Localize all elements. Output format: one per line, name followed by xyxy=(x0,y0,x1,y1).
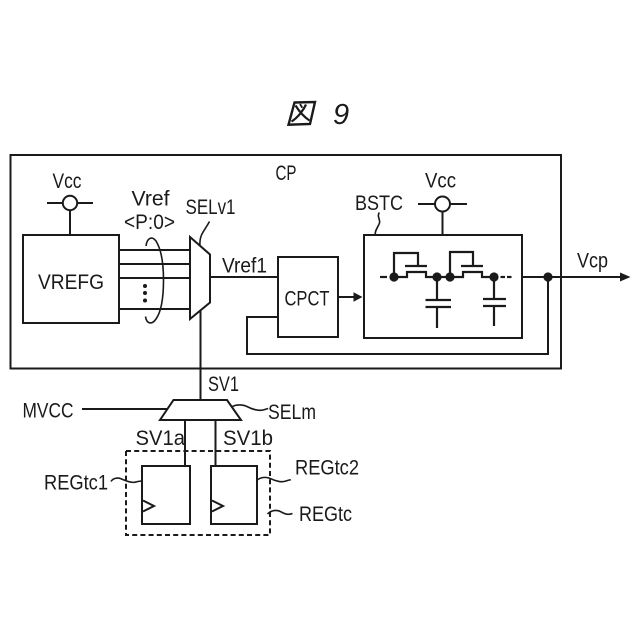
leader squiggle SELv1 xyxy=(200,222,210,246)
block VREFG xyxy=(23,235,119,323)
power Vcc (right) xyxy=(418,197,467,236)
wire SV1b xyxy=(215,420,217,466)
svg-text:Vcp: Vcp xyxy=(577,249,608,272)
svg-text:BSTC: BSTC xyxy=(355,192,403,215)
wire Vref1 xyxy=(210,276,278,278)
register group REGtc dashed box xyxy=(126,451,270,535)
capacitor C2 xyxy=(483,277,506,326)
arrow CPCT to BSTC xyxy=(338,296,355,298)
svg-text:CPCT: CPCT xyxy=(285,288,330,311)
leader squiggle REGtc xyxy=(268,510,293,514)
svg-text:Vref1: Vref1 xyxy=(222,255,267,278)
leader squiggle BSTC xyxy=(375,213,379,236)
svg-text:CP: CP xyxy=(276,162,297,185)
svg-text:MVCC: MVCC xyxy=(23,400,74,423)
feedback wire Vcp to CPCT xyxy=(247,277,548,354)
svg-text:9: 9 xyxy=(333,99,349,131)
svg-text:Vcc: Vcc xyxy=(53,170,82,193)
clock input triangle REGtc2 xyxy=(212,501,223,512)
bus Vref<P:0> wires xyxy=(119,250,190,309)
leader squiggle REGtc2 xyxy=(257,477,291,481)
bus width indicator arc xyxy=(146,238,164,323)
bus vertical ellipsis dots xyxy=(143,284,147,303)
register REGtc2 xyxy=(211,466,257,524)
svg-text:SV1a: SV1a xyxy=(136,427,186,450)
svg-text:<P:0>: <P:0> xyxy=(124,211,175,234)
CP block boundary xyxy=(11,155,562,369)
mux SELv1 xyxy=(190,237,210,319)
chain left stub dash xyxy=(380,276,387,278)
svg-text:SV1: SV1 xyxy=(208,373,239,396)
figure label FIG 9 (kanji ZU drawn as shape) xyxy=(289,102,316,125)
mux SELm xyxy=(160,400,241,420)
wire SV1 xyxy=(200,311,202,401)
svg-text:REGtc2: REGtc2 xyxy=(295,457,359,480)
junction node dots in chain xyxy=(389,272,498,281)
wire between M1 and M2 nodes xyxy=(437,276,450,278)
svg-text:REGtc1: REGtc1 xyxy=(44,472,108,495)
arrowhead Vcp xyxy=(620,273,631,282)
leader squiggle SELm xyxy=(232,405,268,410)
svg-text:SELv1: SELv1 xyxy=(186,196,236,219)
svg-text:SV1b: SV1b xyxy=(223,427,273,450)
svg-text:VREFG: VREFG xyxy=(38,271,104,294)
register REGtc1 xyxy=(142,466,190,524)
svg-text:SELm: SELm xyxy=(268,401,316,424)
wire Vcp output xyxy=(522,276,621,278)
transistor M1 xyxy=(394,253,437,277)
leader squiggle REGtc1 xyxy=(111,478,142,482)
wire SV1a xyxy=(184,420,186,466)
chain continuation dashes xyxy=(501,276,506,278)
clock input triangle REGtc1 xyxy=(143,501,154,512)
svg-text:REGtc: REGtc xyxy=(299,503,352,526)
wire MVCC xyxy=(82,408,168,410)
svg-text:Vcc: Vcc xyxy=(425,170,456,193)
block BSTC xyxy=(364,235,522,338)
block CPCT xyxy=(278,257,338,337)
capacitor C1 xyxy=(426,277,452,328)
transistor M2 xyxy=(450,252,494,277)
power Vcc (left) xyxy=(47,196,93,235)
junction node Vcp xyxy=(543,272,552,281)
svg-text:Vref: Vref xyxy=(132,188,170,211)
